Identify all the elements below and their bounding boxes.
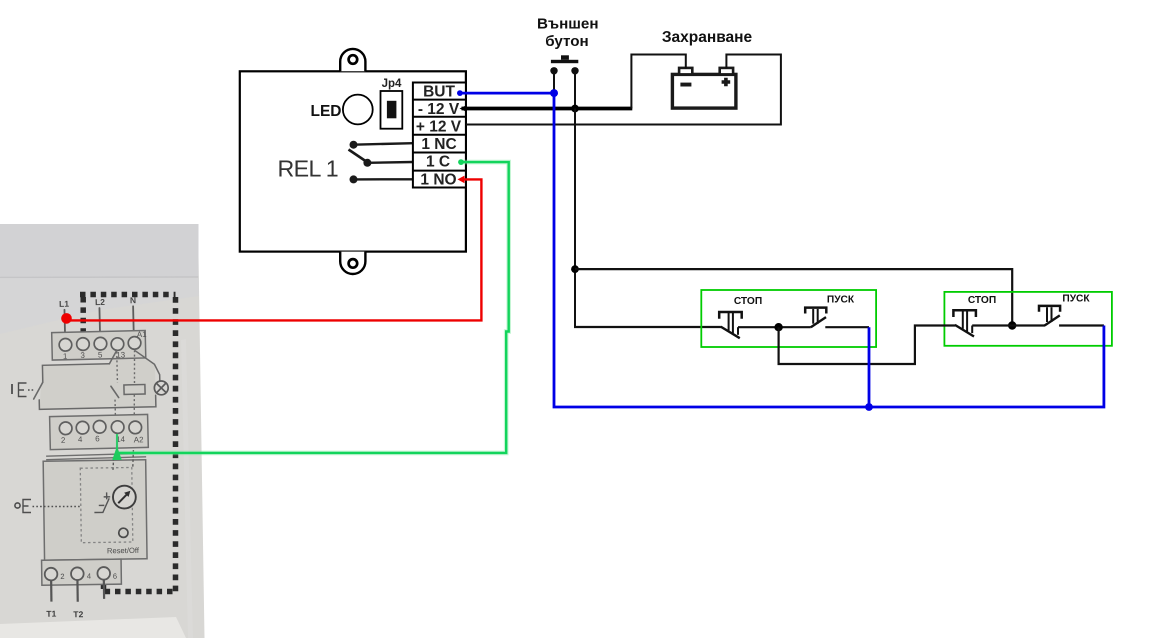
svg-text:4: 4 xyxy=(78,435,83,444)
dashed cable border on photo xyxy=(80,295,176,592)
relay armature xyxy=(349,150,368,163)
svg-text:T1: T1 xyxy=(46,609,56,619)
dial arrow xyxy=(118,493,128,503)
svg-text:ПУСК: ПУСК xyxy=(827,295,855,306)
svg-text:BUT: BUT xyxy=(423,84,455,101)
wire common pin to 1 C xyxy=(367,161,413,164)
wire -12V thick xyxy=(462,107,633,111)
wire NO pin to 1 NO xyxy=(354,178,413,180)
jumper Jp4 shunt xyxy=(387,101,397,119)
dashed circuit continuation below terminal A2 xyxy=(132,450,135,467)
stop button 1 (NC) xyxy=(719,312,742,338)
terminal numbers 2 4 6 14 A2 xyxy=(61,433,144,446)
junction stop1/pusk1 xyxy=(774,323,782,331)
green wire stub at terminal 14 xyxy=(116,434,118,452)
wire NC pin to 1 NC xyxy=(354,143,413,145)
svg-text:Захранване: Захранване xyxy=(662,29,753,46)
junction branch xyxy=(571,265,579,273)
svg-text:Jp4: Jp4 xyxy=(382,78,402,90)
relay contact common pin xyxy=(363,159,371,167)
blue wire pusk1 down xyxy=(868,327,871,407)
bottom terminal circles xyxy=(45,567,110,581)
top terminal block xyxy=(52,330,146,360)
bottom wire stubs xyxy=(51,580,104,602)
external button plunger xyxy=(561,55,569,60)
wire button right pin down xyxy=(574,72,576,109)
external button body xyxy=(551,60,578,63)
wire black vertical to branch xyxy=(574,109,576,329)
svg-text:L2: L2 xyxy=(95,297,105,307)
svg-text:ПУСК: ПУСК xyxy=(1062,294,1090,305)
coil rectangle xyxy=(124,384,145,394)
terminal circles 1 3 5 13 A1 xyxy=(59,336,141,351)
wire junction1 to stop2 xyxy=(779,326,956,365)
block body xyxy=(43,460,147,560)
green box 1 xyxy=(701,290,876,347)
svg-text:A2: A2 xyxy=(134,435,145,444)
small indicator circle xyxy=(119,528,128,537)
relay contact NO pin xyxy=(350,175,358,183)
wire pusk1 right xyxy=(825,326,869,328)
svg-text:REL 1: REL 1 xyxy=(278,156,339,182)
battery right nub xyxy=(720,68,733,75)
svg-text:+ 12 V: + 12 V xyxy=(416,119,462,136)
svg-text:N: N xyxy=(130,295,136,305)
relay module box xyxy=(240,71,466,251)
svg-text:1: 1 xyxy=(63,352,68,361)
wire stop2 to junction xyxy=(972,324,1045,326)
green wire halo xyxy=(119,162,509,453)
blue dot at BUT terminal xyxy=(457,90,463,96)
stop button 2 (NC) xyxy=(953,310,976,336)
pusk button 2 (NO) xyxy=(1039,306,1060,326)
terminal circles 2 4 6 14 A2 xyxy=(59,420,141,436)
blue vertical + bottom rail xyxy=(554,93,1104,407)
external button right pin xyxy=(571,67,578,74)
svg-text:T2: T2 xyxy=(73,609,83,619)
terminal numbers 1 3 5 13 A1 xyxy=(62,330,147,361)
red wire 1 NO to contactor L1 xyxy=(67,179,481,320)
svg-text:2: 2 xyxy=(61,436,66,445)
terminal labels xyxy=(416,84,462,189)
svg-text:- 12 V: - 12 V xyxy=(418,101,460,118)
svg-text:Външен: Външен xyxy=(537,16,599,33)
bottom terminal numbers 2 4 6 xyxy=(60,571,117,581)
svg-text:A1: A1 xyxy=(137,330,148,339)
jumper Jp4 body xyxy=(381,91,403,129)
lower terminal block of contactor xyxy=(50,414,149,449)
arrowhead -12V xyxy=(460,105,468,112)
green dot at 1 C xyxy=(458,159,464,165)
LED circle xyxy=(343,95,373,125)
wire button left pin down xyxy=(553,72,555,92)
main contact slash xyxy=(33,382,43,399)
svg-text:Reset/Off: Reset/Off xyxy=(107,546,140,555)
middle section panel xyxy=(38,350,156,410)
svg-text:5: 5 xyxy=(98,350,103,359)
svg-text:1 NC: 1 NC xyxy=(421,136,456,153)
top mounting ear xyxy=(340,49,365,71)
sensor input label I E xyxy=(12,383,34,397)
svg-text:4: 4 xyxy=(87,572,91,581)
svg-text:13: 13 xyxy=(116,350,126,359)
bottom terminal strip xyxy=(42,559,122,585)
svg-text:СТОП: СТОП xyxy=(734,296,762,307)
svg-text:6: 6 xyxy=(95,434,100,443)
blue junction at rail xyxy=(865,403,873,411)
middle section outline xyxy=(38,350,160,410)
bottom mounting ear xyxy=(340,252,365,274)
contactor drawing (gray print) xyxy=(31,294,169,450)
reset switch symbol xyxy=(94,492,110,512)
battery body xyxy=(672,74,736,108)
wire branch horizontal xyxy=(575,269,1012,325)
svg-text:6: 6 xyxy=(113,572,117,581)
relay contact NC pin xyxy=(350,141,358,149)
svg-text:СТОП: СТОП xyxy=(968,295,996,306)
aux contact slash xyxy=(111,386,119,398)
wire to battery minus xyxy=(631,55,685,109)
wire +12V to battery plus xyxy=(466,55,781,125)
photo of contactor (left scanned image) xyxy=(0,224,205,638)
svg-text:1 C: 1 C xyxy=(426,154,450,171)
wire stub N xyxy=(132,306,135,338)
wire to stop1 xyxy=(574,326,721,328)
svg-text:3: 3 xyxy=(80,351,85,360)
svg-text:2: 2 xyxy=(60,572,64,581)
dashed inner rectangle xyxy=(80,467,133,542)
green arrow at terminal 14 xyxy=(112,446,122,460)
battery plus sign xyxy=(722,78,731,87)
blue junction at button xyxy=(550,89,558,97)
svg-text:бутон: бутон xyxy=(545,33,589,50)
red dot at L1 xyxy=(61,313,72,324)
indicator lamp xyxy=(154,381,168,395)
green wire 1 C to contactor 14 xyxy=(119,162,509,453)
svg-text:L1: L1 xyxy=(59,299,69,309)
svg-text:LED: LED xyxy=(311,103,342,120)
svg-text:1 NO: 1 NO xyxy=(420,172,456,189)
dashed circuit continuation below terminal 14 xyxy=(112,458,115,470)
wire stub L2 xyxy=(98,308,101,339)
wire stop1 to junction xyxy=(738,326,811,328)
blue wire BUT to button xyxy=(463,92,555,95)
battery minus sign xyxy=(680,83,691,87)
wire stub L1 xyxy=(63,310,66,340)
dashed line 13-14 xyxy=(114,350,136,419)
battery left nub xyxy=(679,68,692,75)
dial knob xyxy=(113,486,136,509)
sensor input label o E xyxy=(15,500,80,513)
lower device block xyxy=(40,453,148,619)
red arrow at 1 NO xyxy=(458,176,465,184)
terminal strip xyxy=(413,83,466,188)
block top double edge xyxy=(46,453,146,456)
external button left pin xyxy=(550,67,557,74)
wire pusk2 right xyxy=(1059,324,1104,326)
junction stop2 node xyxy=(1008,321,1016,329)
green box 2 xyxy=(944,292,1112,346)
junction -12V / button xyxy=(571,105,579,113)
pusk button 1 (NO) xyxy=(805,308,826,328)
